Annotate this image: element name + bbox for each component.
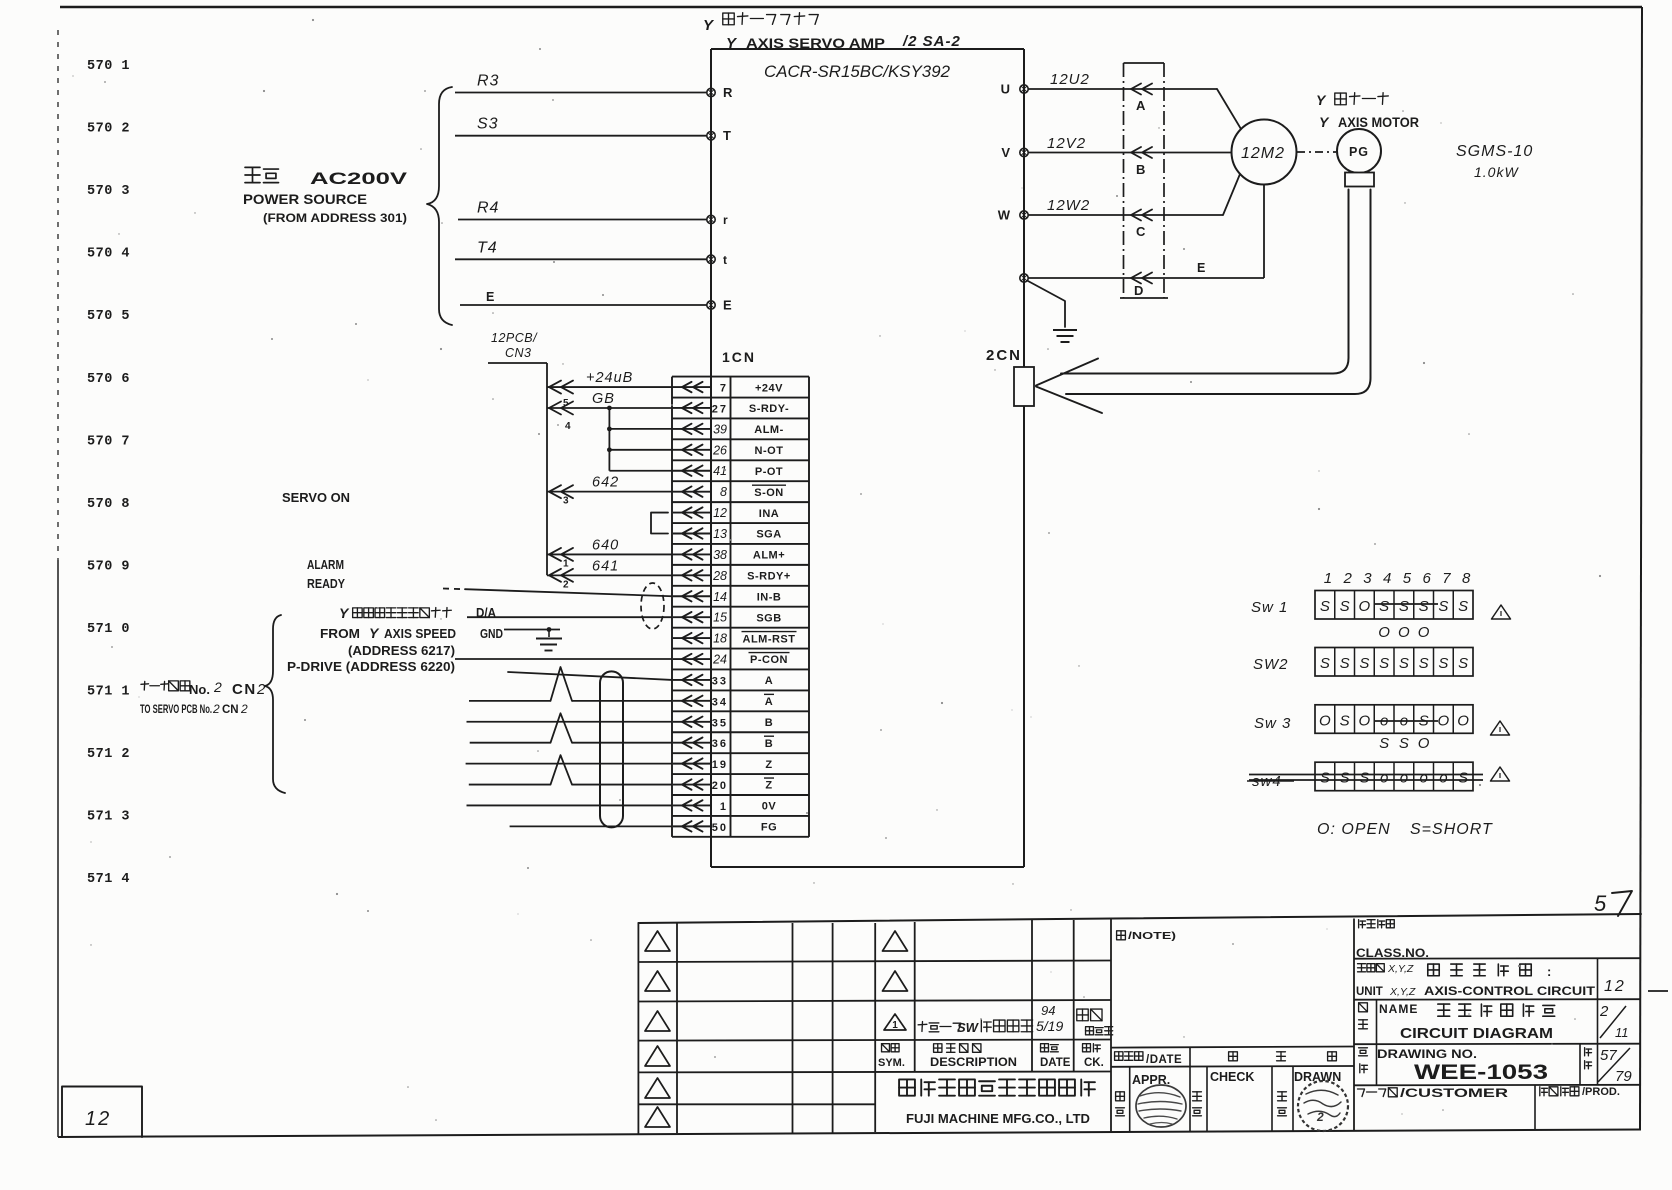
- svg-text:O: OPEN: O: OPEN: [1317, 821, 1391, 838]
- header CK: [1083, 1044, 1091, 1052]
- svg-text:S: S: [1320, 770, 1330, 787]
- svg-text:/DATE: /DATE: [1146, 1054, 1182, 1066]
- label power source AC200V: [245, 166, 260, 168]
- svg-text:79: 79: [1615, 1068, 1632, 1085]
- unit name row: [1358, 963, 1366, 965]
- svg-text:12V2: 12V2: [1047, 135, 1086, 152]
- wire Bbar row: [470, 742, 551, 744]
- svg-text:X,Y,Z: X,Y,Z: [1387, 963, 1414, 975]
- terminal W on right edge: [1020, 211, 1028, 219]
- svg-text:571 1: 571 1: [87, 685, 130, 700]
- svg-text:12: 12: [85, 1108, 111, 1130]
- 1CN pin 38 ALM+: [673, 553, 711, 555]
- svg-text:UNIT: UNIT: [1356, 986, 1383, 998]
- svg-text:O: O: [1418, 735, 1430, 752]
- wire 642 to 1CN row S-ON: [547, 491, 673, 493]
- svg-text:CN: CN: [222, 704, 239, 716]
- 1CN pin 15 SGB: [673, 616, 711, 618]
- svg-text:P-DRIVE (ADDRESS 6220): P-DRIVE (ADDRESS 6220): [287, 660, 455, 674]
- svg-text:6: 6: [1422, 570, 1431, 587]
- svg-text:12PCB/: 12PCB/: [491, 331, 538, 345]
- svg-text:570 3: 570 3: [87, 184, 130, 199]
- svg-text:FG: FG: [761, 822, 777, 834]
- svg-text:O: O: [1398, 624, 1410, 641]
- svg-text:11: 11: [1615, 1025, 1629, 1040]
- terminal E(4th) on right edge: [1020, 274, 1028, 282]
- brace power source: [427, 87, 452, 325]
- wire R4 to terminal r: [458, 219, 707, 221]
- wire B row: [467, 721, 673, 723]
- svg-text:5: 5: [1403, 570, 1412, 587]
- svg-text:41: 41: [713, 464, 727, 478]
- terminal U on right edge: [1020, 85, 1028, 93]
- svg-text:Sw 3: Sw 3: [1254, 715, 1291, 732]
- svg-text:94: 94: [1041, 1003, 1055, 1018]
- title block outline: [638, 914, 1641, 923]
- svg-text:T4: T4: [477, 239, 498, 256]
- svg-text:O: O: [1378, 624, 1390, 641]
- svg-text:7: 7: [720, 383, 728, 395]
- wire +24uB to 1CN row +24V: [547, 386, 673, 388]
- svg-text:S: S: [1340, 770, 1350, 787]
- svg-text:CIRCUIT DIAGRAM: CIRCUIT DIAGRAM: [1400, 1025, 1553, 1042]
- svg-text:PG: PG: [1349, 145, 1369, 159]
- svg-text:2: 2: [1599, 1003, 1609, 1020]
- svg-text:S: S: [1340, 712, 1350, 729]
- motor cable (2 lines): [1061, 190, 1349, 374]
- scan speckle (decorative): [440, 618, 441, 619]
- revision triangles left column: [645, 931, 670, 951]
- svg-text:P-OT: P-OT: [755, 466, 783, 478]
- svg-text:O: O: [1359, 712, 1371, 729]
- svg-text:FROM: FROM: [320, 626, 360, 641]
- svg-text:570 7: 570 7: [87, 434, 130, 449]
- wire GND to ground: [504, 629, 560, 631]
- svg-text:+24uB: +24uB: [586, 370, 633, 386]
- svg-text:AXIS MOTOR: AXIS MOTOR: [1338, 115, 1419, 130]
- servo amp box 12SA-2 outline: [711, 48, 1024, 50]
- svg-text:S: S: [1379, 655, 1389, 672]
- svg-text:4: 4: [1383, 570, 1391, 587]
- svg-text:S: S: [1379, 598, 1389, 615]
- label No.2 CN2 (jp): [141, 683, 149, 685]
- 1CN pin 19 Z: [673, 763, 711, 765]
- svg-text:S: S: [1320, 598, 1330, 615]
- svg-text:570 6: 570 6: [87, 372, 130, 387]
- 1CN pin 35 B: [673, 721, 711, 723]
- wire T4 to terminal t: [455, 258, 707, 260]
- svg-text:8: 8: [1462, 570, 1471, 587]
- svg-text:TO SERVO PCB No.: TO SERVO PCB No.: [140, 704, 212, 716]
- svg-text:A: A: [765, 675, 773, 687]
- company name fuji machine (jp): [899, 1079, 915, 1095]
- svg-text:A: A: [765, 696, 773, 708]
- svg-text:U: U: [1001, 82, 1010, 97]
- svg-text:36: 36: [712, 738, 728, 750]
- svg-text:R4: R4: [477, 200, 499, 217]
- svg-text:O: O: [1359, 598, 1371, 615]
- svg-text:28: 28: [712, 569, 727, 583]
- shaft link motor-PG: [1297, 151, 1336, 153]
- 1CN pin 26 N-OT: [673, 449, 711, 451]
- branch bus ALM-/N-OT/P-OT: [608, 408, 610, 471]
- name row: [1359, 1003, 1368, 1012]
- svg-text:S: S: [1399, 655, 1409, 672]
- terminal R: [707, 88, 715, 96]
- svg-text:X,Y,Z: X,Y,Z: [1389, 986, 1416, 998]
- svg-text:S: S: [1320, 655, 1330, 672]
- stub 12PCB CN3: [488, 362, 547, 364]
- stamp drawn: [1298, 1081, 1348, 1131]
- ground at E terminal: [1028, 281, 1065, 327]
- svg-text:B: B: [1136, 162, 1145, 177]
- svg-text:S: S: [1438, 598, 1448, 615]
- svg-text:5: 5: [1594, 891, 1607, 916]
- svg-text:ALM+: ALM+: [753, 550, 785, 562]
- svg-text:B: B: [765, 717, 773, 729]
- svg-text:IN-B: IN-B: [757, 591, 782, 603]
- svg-text:SGA: SGA: [756, 529, 781, 541]
- svg-text:S: S: [1399, 735, 1409, 752]
- wire Abar row: [469, 700, 551, 702]
- svg-text:ALARM: ALARM: [307, 557, 344, 572]
- svg-text:ALM-: ALM-: [754, 424, 784, 436]
- svg-text:CLASS.NO.: CLASS.NO.: [1356, 948, 1429, 960]
- svg-text:AXIS SPEED: AXIS SPEED: [384, 626, 456, 641]
- svg-text:DATE: DATE: [1040, 1057, 1071, 1069]
- svg-text:R3: R3: [477, 73, 499, 90]
- wire P-OT: [609, 470, 673, 472]
- svg-text:15: 15: [713, 611, 727, 625]
- sheet bottom border: [58, 1130, 1641, 1138]
- wire FG: [510, 825, 672, 827]
- vertical bus from CN3: [546, 363, 548, 575]
- svg-text:S: S: [1438, 655, 1448, 672]
- svg-text:640: 640: [592, 537, 619, 553]
- svg-text:S: S: [1340, 598, 1350, 615]
- note box: [1111, 1047, 1354, 1048]
- svg-text:INA: INA: [759, 508, 779, 520]
- svg-text:2: 2: [240, 702, 248, 716]
- svg-text:19: 19: [712, 759, 728, 771]
- svg-text:570 9: 570 9: [87, 559, 130, 574]
- svg-text:S: S: [1458, 770, 1468, 787]
- svg-text:S-RDY-: S-RDY-: [749, 403, 789, 415]
- 1CN pin 20 Z: [673, 784, 711, 786]
- customer row: [1358, 1089, 1365, 1097]
- twisted pair crossover B: [551, 713, 573, 742]
- svg-text:S: S: [1340, 655, 1350, 672]
- class no block: [1354, 957, 1641, 960]
- svg-text:D: D: [1134, 283, 1143, 298]
- svg-text:E: E: [723, 298, 732, 313]
- svg-text:GND: GND: [480, 627, 503, 641]
- revision 1 description (jp handwritten): [918, 1023, 927, 1026]
- svg-text:570 5: 570 5: [87, 309, 130, 324]
- svg-text:24: 24: [712, 653, 727, 667]
- svg-text:T: T: [723, 128, 731, 143]
- svg-text:13: 13: [713, 527, 727, 541]
- revision triangle 1 entry: [884, 1014, 906, 1030]
- svg-text:SERVO ON: SERVO ON: [282, 490, 350, 505]
- sheet top border: [60, 6, 1642, 8]
- svg-text:38: 38: [713, 548, 727, 562]
- svg-text:S: S: [1359, 770, 1369, 787]
- svg-text:SW: SW: [957, 1020, 980, 1035]
- svg-text:50: 50: [712, 822, 728, 834]
- revision table grid: [637, 923, 639, 1134]
- wire GB to 1CN row S-RDY-: [547, 407, 673, 409]
- terminal E: [707, 301, 715, 309]
- svg-text:CHECK: CHECK: [1210, 1070, 1254, 1084]
- svg-text:o: o: [1380, 770, 1388, 787]
- svg-text:20: 20: [712, 780, 728, 792]
- wire A: [508, 672, 672, 680]
- svg-text:AXIS-CONTROL CIRCUIT: AXIS-CONTROL CIRCUIT: [1424, 986, 1595, 998]
- svg-text:CACR-SR15BC/KSY392: CACR-SR15BC/KSY392: [764, 63, 950, 81]
- svg-text:S=SHORT: S=SHORT: [1410, 821, 1493, 838]
- svg-text:O: O: [1319, 712, 1331, 729]
- 1CN pin 36 B: [673, 742, 711, 744]
- svg-text:26: 26: [712, 443, 727, 457]
- svg-text:R: R: [723, 85, 733, 100]
- svg-text:1CN: 1CN: [722, 349, 756, 365]
- switch SW1: [1315, 591, 1473, 620]
- svg-text:642: 642: [592, 475, 619, 491]
- svg-text:o: o: [1439, 770, 1447, 787]
- svg-text:t: t: [723, 253, 727, 267]
- svg-text:GB: GB: [592, 391, 615, 407]
- svg-text:12W2: 12W2: [1047, 197, 1090, 214]
- 1CN pin 8 S-ON: [673, 491, 711, 493]
- drawing no row: [1359, 1047, 1368, 1049]
- svg-text:57: 57: [1600, 1047, 1617, 1064]
- brace CN2: [265, 615, 285, 793]
- svg-text:S3: S3: [477, 116, 499, 133]
- svg-text:12M2: 12M2: [1241, 145, 1285, 162]
- sheet left border: [57, 30, 59, 560]
- svg-text:570 2: 570 2: [87, 122, 130, 137]
- svg-text:WEE-1053: WEE-1053: [1414, 1061, 1548, 1084]
- 1CN pin 27 S-RDY-: [673, 407, 711, 409]
- wire E motor ground: [1028, 277, 1264, 279]
- PG mount: [1345, 173, 1374, 187]
- svg-text:NAME: NAME: [1379, 1002, 1418, 1016]
- terminal V on right edge: [1020, 148, 1028, 156]
- svg-text:S: S: [1399, 598, 1409, 615]
- wire N-OT: [609, 449, 673, 451]
- terminal r: [707, 215, 715, 223]
- svg-text:o: o: [1419, 770, 1427, 787]
- svg-text:(FROM ADDRESS 301): (FROM ADDRESS 301): [263, 213, 407, 225]
- svg-text:E: E: [1197, 261, 1205, 275]
- wire E to terminal E: [460, 304, 707, 306]
- 1CN pin 13 SGA: [673, 533, 711, 535]
- svg-text:7: 7: [1442, 570, 1451, 587]
- wire U 12U2: [1028, 88, 1217, 90]
- svg-text:READY: READY: [307, 576, 345, 591]
- svg-text:2: 2: [1342, 570, 1352, 587]
- svg-text:AC200V: AC200V: [310, 169, 408, 188]
- svg-text:35: 35: [712, 717, 728, 729]
- svg-text:S: S: [1379, 735, 1389, 752]
- svg-text:P-CON: P-CON: [750, 654, 788, 666]
- 1CN pin 50 FG: [673, 825, 711, 827]
- wire 640 to 1CN row ALM+: [547, 553, 673, 555]
- 1CN pin 14 IN-B: [673, 595, 711, 597]
- svg-text:SW2: SW2: [1253, 656, 1289, 673]
- svg-text:S: S: [1359, 655, 1369, 672]
- 1CN pin 28 S-RDY+: [673, 574, 711, 576]
- svg-text:33: 33: [712, 675, 728, 687]
- switch SW2: [1315, 648, 1473, 677]
- svg-text:S: S: [1458, 598, 1468, 615]
- header SYM: [882, 1044, 890, 1052]
- twisted pair crossover A: [551, 667, 573, 701]
- terminal t: [707, 255, 715, 263]
- svg-text:W: W: [998, 208, 1011, 223]
- svg-text:2CN: 2CN: [986, 347, 1022, 364]
- svg-text:S: S: [1419, 655, 1429, 672]
- svg-text:1: 1: [892, 1020, 898, 1031]
- svg-text:O: O: [1418, 624, 1430, 641]
- svg-text:/NOTE): /NOTE): [1128, 930, 1176, 942]
- wire S3 to terminal T: [455, 135, 707, 137]
- svg-text:4: 4: [565, 421, 571, 432]
- svg-text:2: 2: [563, 579, 569, 590]
- svg-text:39: 39: [713, 422, 727, 436]
- wire V 12V2: [1028, 152, 1232, 154]
- page box 12 bottom left: [62, 1087, 142, 1138]
- motor 12M2: [1232, 120, 1297, 185]
- svg-text:Z: Z: [765, 759, 772, 771]
- svg-text:SGMS-10: SGMS-10: [1456, 143, 1533, 160]
- svg-text:641: 641: [592, 558, 619, 574]
- wire W 12W2: [1028, 214, 1223, 216]
- wire SGB: [467, 616, 672, 618]
- 1CN pin 39 ALM-: [673, 428, 711, 430]
- wire ALM-: [609, 428, 673, 430]
- svg-text:B: B: [765, 738, 773, 750]
- svg-text:FUJI MACHINE MFG.CO., LTD: FUJI MACHINE MFG.CO., LTD: [906, 1111, 1090, 1126]
- 1CN pin 41 P-OT: [673, 470, 711, 472]
- svg-text:S-ON: S-ON: [754, 487, 784, 499]
- svg-text:570 8: 570 8: [87, 497, 130, 512]
- svg-text:S-RDY+: S-RDY+: [747, 571, 791, 583]
- svg-text:8: 8: [720, 485, 727, 499]
- 1CN table grid: [672, 376, 809, 378]
- svg-text:2: 2: [256, 681, 266, 698]
- jumper INA-SGA: [651, 513, 668, 534]
- wire 641 to 1CN row S-RDY+: [547, 574, 673, 576]
- cable bundle oval: [600, 671, 623, 827]
- twisted pair crossover Z: [551, 755, 573, 784]
- wire Zbar row: [469, 784, 551, 786]
- 1CN pin 18 ALM-RST: [673, 637, 711, 639]
- svg-text:O: O: [1438, 712, 1450, 729]
- 1CN pin 34 A: [673, 700, 711, 702]
- svg-text:1: 1: [563, 558, 569, 569]
- svg-text:E: E: [486, 290, 494, 304]
- wire R3 to terminal R: [455, 92, 707, 94]
- svg-text:1: 1: [720, 801, 728, 813]
- revision 1 signature yamamoto: [1077, 1009, 1088, 1021]
- wire 0V: [467, 804, 673, 806]
- svg-text:12U2: 12U2: [1050, 71, 1090, 88]
- svg-text:O: O: [1457, 712, 1469, 729]
- svg-text:+24V: +24V: [755, 382, 783, 394]
- svg-text:12: 12: [713, 506, 727, 520]
- 1CN pin 33 A: [673, 679, 711, 681]
- 2CN cable arrows: [1036, 359, 1098, 386]
- date row: [1111, 1065, 1354, 1068]
- encoder PG: [1337, 129, 1381, 173]
- svg-text:14: 14: [713, 590, 727, 604]
- svg-text:571 0: 571 0: [87, 622, 130, 637]
- header DATE: [1041, 1044, 1049, 1052]
- svg-text:DESCRIPTION: DESCRIPTION: [930, 1057, 1017, 1069]
- svg-text:2: 2: [212, 702, 220, 716]
- svg-text:S: S: [1419, 598, 1429, 615]
- svg-text:AXIS SERVO AMP: AXIS SERVO AMP: [746, 36, 885, 51]
- svg-text:No.: No.: [189, 682, 210, 697]
- svg-text:0V: 0V: [762, 801, 777, 813]
- sheet right border: [1640, 7, 1642, 1130]
- switch SW4 (deleted): [1315, 762, 1473, 791]
- svg-text:34: 34: [712, 696, 728, 708]
- ground symbol (signal): [548, 630, 550, 638]
- svg-text:5: 5: [563, 398, 569, 409]
- svg-text:27: 27: [712, 403, 728, 415]
- svg-text:2: 2: [213, 679, 222, 695]
- svg-text:570 4: 570 4: [87, 247, 130, 262]
- svg-text:r: r: [723, 213, 728, 227]
- svg-text:DRAWING NO.: DRAWING NO.: [1377, 1047, 1477, 1061]
- 1CN pin 7 +24V: [673, 386, 711, 388]
- terminal T: [707, 132, 715, 140]
- 1CN pin 24 P-CON: [673, 658, 711, 660]
- svg-text:o: o: [1400, 770, 1408, 787]
- wire Z row: [466, 763, 672, 765]
- svg-text:N-OT: N-OT: [755, 445, 784, 457]
- svg-text:/2 SA-2: /2 SA-2: [902, 33, 961, 50]
- wire P-CON: [455, 658, 672, 660]
- svg-text:CN3: CN3: [505, 346, 532, 360]
- svg-text:5/19: 5/19: [1036, 1018, 1063, 1034]
- svg-text:3: 3: [1363, 570, 1372, 587]
- svg-text:C: C: [1136, 224, 1146, 239]
- revision triangles second column: [883, 931, 908, 951]
- twisted pair ellipse IN-B/SGB: [641, 583, 664, 629]
- svg-text:(ADDRESS 6217): (ADDRESS 6217): [348, 644, 455, 658]
- approval cells: [1129, 1067, 1131, 1132]
- stamp appr: [1136, 1085, 1186, 1127]
- svg-text:12: 12: [1604, 978, 1626, 995]
- svg-text:Z: Z: [765, 780, 772, 792]
- svg-text:3: 3: [563, 496, 569, 507]
- svg-text:18: 18: [713, 632, 727, 646]
- svg-text:571 4: 571 4: [87, 872, 130, 887]
- svg-text:570 1: 570 1: [87, 59, 130, 74]
- svg-text:1.0kW: 1.0kW: [1474, 164, 1519, 180]
- svg-text:POWER SOURCE: POWER SOURCE: [243, 191, 367, 207]
- svg-text:V: V: [1001, 145, 1010, 160]
- 1CN pin 12 INA: [673, 512, 711, 514]
- svg-text:571 2: 571 2: [87, 747, 130, 762]
- svg-text::: :: [1547, 964, 1551, 979]
- svg-text:SGB: SGB: [756, 612, 781, 624]
- 1CN pin 1 0V: [673, 804, 711, 806]
